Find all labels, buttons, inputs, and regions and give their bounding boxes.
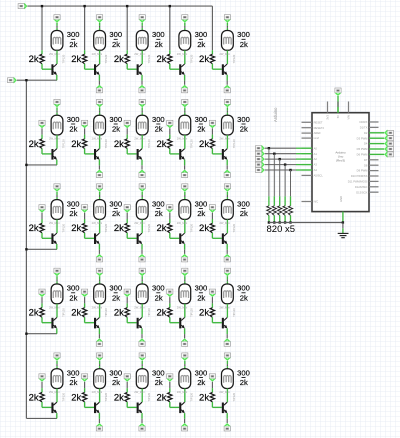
wire: base flag lead xyxy=(169,128,171,134)
resistor 820 #2 xyxy=(272,206,276,216)
junction A2 xyxy=(279,158,281,160)
lamp LA31 xyxy=(51,200,63,220)
svg-text:RESET: RESET xyxy=(314,120,323,124)
part labels 2W_Mini / TIP120 xyxy=(134,306,151,317)
part labels 2W_Mini / TIP120 xyxy=(134,52,151,63)
wire: base flag lead xyxy=(211,382,213,388)
lamp LA34 xyxy=(179,200,191,220)
svg-text:3V3: 3V3 xyxy=(326,115,330,120)
wire: base lead xyxy=(41,402,43,407)
net flag GND below Q33 xyxy=(139,254,146,262)
wire: A4 horizontal xyxy=(265,169,296,171)
net flag A0 (row-1 base select, top-left) xyxy=(18,3,27,10)
wire: base flag lead xyxy=(41,213,43,219)
transistor Q51 TIP120 xyxy=(51,402,57,413)
wire: base lead xyxy=(126,233,128,238)
svg-text:RESET2: RESET2 xyxy=(314,126,325,130)
wire: lamp bottom lead to collector xyxy=(226,389,228,403)
pin D3 PWM (right) xyxy=(369,137,379,139)
net flag A4 above base resistor R53 xyxy=(124,374,131,382)
wire: emitter lead to GND flag xyxy=(226,244,228,250)
pin D10 PWM/SS (right) xyxy=(369,175,379,177)
net flag A3 above base resistor R45 xyxy=(209,289,216,297)
wire: emitter lead to GND flag xyxy=(141,328,143,334)
label 300/2k of LA13 xyxy=(152,30,165,49)
wire: emitter lead to row wire xyxy=(56,244,58,249)
part labels 2W_Mini / TIP120 xyxy=(92,137,109,148)
part labels 2W_Mini / TIP120 xyxy=(134,137,151,148)
svg-text:D3 PWM: D3 PWM xyxy=(357,136,369,140)
wire: base lead xyxy=(84,317,86,322)
label 300/2k of LA25 xyxy=(237,115,250,134)
net flag D6 above lamp LA45 xyxy=(224,268,231,276)
net flag D3 (right) xyxy=(384,135,393,142)
net flag D2 above lamp LA11 xyxy=(54,15,61,23)
resistor R22 2k (base) xyxy=(82,139,86,149)
wire: D3 net stub xyxy=(379,137,385,139)
transistor Q41 TIP120 xyxy=(51,318,57,329)
net flag A1 above base resistor R24 xyxy=(167,120,174,128)
label 300/2k of LA35 xyxy=(237,199,250,218)
net flag GND below Q54 xyxy=(181,423,188,431)
net flag A3 above base resistor R43 xyxy=(124,289,131,297)
wire: D6 net stub xyxy=(379,153,385,155)
label 300/2k of LA12 xyxy=(109,30,122,49)
svg-text:D4: D4 xyxy=(364,142,368,146)
svg-text:2k: 2k xyxy=(199,223,209,234)
part labels 2W_Mini / TIP120 xyxy=(49,52,66,63)
wire: base flag lead xyxy=(41,297,43,303)
wire: base lead xyxy=(211,402,213,407)
svg-text:D12/MISO: D12/MISO xyxy=(355,185,368,189)
wire: lamp top lead xyxy=(141,23,143,26)
wire: lamp top lead xyxy=(56,192,58,195)
part labels 2W_Mini / TIP120 xyxy=(92,390,109,401)
net flag A4 above base resistor R51 xyxy=(39,374,46,382)
part labels 2W_Mini / TIP120 xyxy=(177,306,194,317)
wire: top bus drop to base resistor col 4 xyxy=(169,6,171,50)
pin A5/SCL (left) xyxy=(302,174,313,176)
junction on top bus col 1 xyxy=(41,5,43,7)
pin RESET (left) xyxy=(302,121,313,123)
wire: emitter lead to GND flag xyxy=(184,413,186,419)
pin GND (bottom) xyxy=(342,212,344,223)
svg-text:AREF: AREF xyxy=(314,131,322,135)
lamp LA25 xyxy=(222,115,234,135)
net flag A3 above base resistor R44 xyxy=(167,289,174,297)
net flag A0 (left of Arduino) xyxy=(255,145,264,152)
lamp LA53 xyxy=(136,369,148,389)
net flag A4 (left of Arduino) xyxy=(255,167,264,174)
wire: base lead xyxy=(41,149,43,154)
resistor R55 2k (base) xyxy=(210,392,214,402)
resistor 820 #5 xyxy=(288,206,292,216)
svg-text:D6 PWM: D6 PWM xyxy=(357,153,369,157)
net flag A4 above base resistor R54 xyxy=(167,374,174,382)
transistor Q11 TIP120 xyxy=(51,64,57,75)
net flag D5 above lamp LA34 xyxy=(182,184,189,192)
wire: lamp top lead xyxy=(141,107,143,110)
pin N/C (left) xyxy=(302,201,313,203)
junction A3 xyxy=(284,163,286,165)
resistor R31 2k (base) xyxy=(40,223,44,233)
label 300/2k of LA44 xyxy=(195,284,208,303)
svg-text:D8: D8 xyxy=(364,163,368,167)
pin D12/MISO (right) xyxy=(369,186,379,188)
svg-text:D5 PWM: D5 PWM xyxy=(357,147,369,151)
resistor R43 2k (base) xyxy=(125,308,129,318)
wire: base lead xyxy=(169,317,171,322)
wire: 820 #2 bottom lead xyxy=(273,215,275,222)
wire: base flag lead xyxy=(84,297,86,303)
part labels 2W_Mini / TIP120 xyxy=(177,52,194,63)
net flag A4 above base resistor R52 xyxy=(81,374,88,382)
net flag D3 above lamp LA32 xyxy=(96,184,103,192)
wire: lamp top lead xyxy=(226,361,228,364)
lamp LA22 xyxy=(94,115,106,135)
resistor R34 2k (base) xyxy=(168,223,172,233)
svg-text:Arduino: Arduino xyxy=(273,107,278,122)
wire: lamp bottom lead to collector xyxy=(141,219,143,233)
wire: base flag lead xyxy=(169,213,171,219)
transistor Q55 TIP120 xyxy=(222,402,228,413)
wire: ground rail xyxy=(269,222,343,224)
resistor 820 #3 xyxy=(278,206,282,216)
wire: base lead xyxy=(211,149,213,154)
transistor Q25 TIP120 xyxy=(222,149,228,160)
resistor R45 2k (base) xyxy=(210,308,214,318)
net flag GND below Q35 xyxy=(224,254,231,262)
wire: emitter lead to GND flag xyxy=(98,75,100,81)
wire: A3 drop to 820 resistor xyxy=(284,165,286,197)
wire: base flag lead xyxy=(211,213,213,219)
pin 5V (top) xyxy=(337,102,339,113)
wire: lamp bottom lead to collector xyxy=(99,389,101,403)
svg-text:2k: 2k xyxy=(114,392,124,403)
wire: base flag lead xyxy=(84,128,86,134)
net flag GND below Q45 xyxy=(224,338,231,346)
part labels 2W_Mini / TIP120 xyxy=(177,221,194,232)
part labels 2W_Mini / TIP120 xyxy=(219,390,236,401)
pin RESET2 (left) xyxy=(302,127,313,129)
net flag D5 above lamp LA54 xyxy=(182,353,189,361)
wire: emitter lead to GND flag xyxy=(226,413,228,419)
pin D6 PWM (right) xyxy=(369,153,379,155)
wire: A4 drop to 820 resistor xyxy=(290,170,292,196)
label 300/2k of LA22 xyxy=(109,115,122,134)
wire: A1 drop to 820 resistor xyxy=(273,154,275,197)
wire: base lead xyxy=(126,402,128,407)
net flag GND below Q42 xyxy=(96,338,103,346)
resistor R35 2k (base) xyxy=(210,223,214,233)
wire: lamp top lead xyxy=(99,361,101,364)
part labels 2W_Mini / TIP120 xyxy=(134,221,151,232)
wire: D4 net stub xyxy=(379,143,385,145)
wire: lamp top lead xyxy=(99,276,101,279)
net flag A2 above base resistor R34 xyxy=(167,205,174,213)
wire: emitter lead to GND flag xyxy=(184,160,186,166)
net flag D4 above lamp LA43 xyxy=(139,268,146,276)
wire: lamp top lead xyxy=(141,276,143,279)
svg-text:2k: 2k xyxy=(199,54,209,65)
svg-text:820 x5: 820 x5 xyxy=(267,224,296,235)
resistor R15 2k (base) xyxy=(210,54,214,64)
part labels 2W_Mini / TIP120 xyxy=(219,52,236,63)
lamp LA13 xyxy=(136,31,148,51)
wire: lamp bottom lead to collector xyxy=(184,304,186,318)
lamp LA21 xyxy=(51,115,63,135)
net flag GND below Q52 xyxy=(96,423,103,431)
wire: emitter lead to GND flag xyxy=(141,160,143,166)
net flag A2 above base resistor R33 xyxy=(124,205,131,213)
net flag GND below Q32 xyxy=(96,254,103,262)
net flag D6 above lamp LA25 xyxy=(224,99,231,107)
part labels 2W_Mini / TIP120 xyxy=(219,221,236,232)
wire: 5V lead xyxy=(337,96,339,102)
junction 820 #2 / ground rail xyxy=(273,221,275,223)
junction 820 #3 / ground rail xyxy=(279,221,281,223)
resistor R51 2k (base) xyxy=(40,392,44,402)
wire: lamp bottom lead to collector xyxy=(99,219,101,233)
wire: base flag lead xyxy=(126,382,128,388)
label 300/2k of LA21 xyxy=(67,115,80,134)
label 300/2k of LA52 xyxy=(109,368,122,387)
svg-text:D7: D7 xyxy=(364,158,368,162)
lamp LA11 xyxy=(51,31,63,51)
svg-text:D1/TX: D1/TX xyxy=(360,126,368,130)
lamp LA32 xyxy=(94,200,106,220)
resistor R12 2k (base) xyxy=(82,54,86,64)
wire: emitter lead to GND flag xyxy=(98,413,100,419)
wire: base lead xyxy=(41,233,43,238)
wire: base lead xyxy=(41,317,43,322)
net flag GND below Q15 xyxy=(224,85,231,93)
wire: lamp bottom lead to collector xyxy=(56,389,58,403)
wire: emitter lead to GND flag xyxy=(141,75,143,81)
net flag A2 (left of Arduino) xyxy=(255,156,264,163)
wire: A1 horizontal xyxy=(265,153,296,155)
wire: lamp bottom lead to collector xyxy=(226,219,228,233)
wire: base lead xyxy=(169,233,171,238)
wire: lamp top lead xyxy=(141,361,143,364)
part labels 2W_Mini / TIP120 xyxy=(49,221,66,232)
net flag A2 above base resistor R32 xyxy=(81,205,88,213)
label 300/2k of LA32 xyxy=(109,199,122,218)
wire: top bus drop to base resistor col 1 xyxy=(41,6,43,50)
pin A1 (left) xyxy=(302,153,313,155)
wire: lamp top lead xyxy=(184,192,186,195)
resistor R54 2k (base) xyxy=(168,392,172,402)
wire: 820 #1 bottom lead xyxy=(268,215,270,222)
resistor R21 2k (base) xyxy=(40,139,44,149)
lamp LA54 xyxy=(179,369,191,389)
transistor Q24 TIP120 xyxy=(179,149,185,160)
transistor Q15 TIP120 xyxy=(222,64,228,75)
net flag GND below Q53 xyxy=(139,423,146,431)
resistor R25 2k (base) xyxy=(210,139,214,149)
svg-text:2k: 2k xyxy=(199,392,209,403)
svg-text:D13/SCK: D13/SCK xyxy=(356,190,367,194)
transistor Q32 TIP120 xyxy=(94,233,100,244)
wire: base lead xyxy=(84,64,86,69)
resistor 820 #4 xyxy=(283,206,287,216)
part labels 2W_Mini / TIP120 xyxy=(219,306,236,317)
svg-text:A1: A1 xyxy=(314,152,318,156)
wire: base lead xyxy=(211,317,213,322)
wire: emitter lead to row wire xyxy=(56,328,58,333)
wire: emitter lead to row wire xyxy=(56,160,58,165)
label 300/2k of LA53 xyxy=(152,368,165,387)
wire: top bus drop to base resistor col 2 xyxy=(84,6,86,50)
svg-text:2k: 2k xyxy=(71,139,81,150)
junction ground rail / GND pin xyxy=(342,221,344,223)
label 300/2k of LA54 xyxy=(195,368,208,387)
svg-text:(Rev3): (Rev3) xyxy=(336,159,345,163)
svg-text:2k: 2k xyxy=(29,223,39,234)
net flag GND below Q23 xyxy=(139,170,146,178)
lamp LA45 xyxy=(222,284,234,304)
net flag D6 above lamp LA35 xyxy=(224,184,231,192)
wire: emitter lead to GND flag xyxy=(98,244,100,250)
net flag D4 above lamp LA13 xyxy=(139,15,146,23)
wire: lamp top lead xyxy=(56,276,58,279)
wire: lamp top lead xyxy=(226,192,228,195)
wire: base flag lead xyxy=(126,213,128,219)
net flag 5V above Arduino xyxy=(335,88,342,96)
svg-text:2k: 2k xyxy=(199,308,209,319)
wire: base lead xyxy=(126,317,128,322)
resistor R13 2k (base) xyxy=(125,54,129,64)
wire: base lead xyxy=(84,402,86,407)
wire: 820 #3 bottom lead xyxy=(279,215,281,222)
wire: row 5 emitter wire xyxy=(26,417,57,419)
svg-text:D2: D2 xyxy=(364,131,368,135)
wire: A0 drop to 820 resistor xyxy=(268,148,270,196)
wire: base lead xyxy=(211,64,213,69)
wire: A2 horizontal xyxy=(265,158,296,160)
pin A0 (left) xyxy=(302,147,313,149)
resistor R41 2k (base) xyxy=(40,308,44,318)
wire: top bus drop to base resistor col 3 xyxy=(126,6,128,50)
wire: base flag lead xyxy=(84,213,86,219)
label 300/2k of LA15 xyxy=(237,30,250,49)
wire: base lead xyxy=(169,149,171,154)
pin AREF (left) xyxy=(302,132,313,134)
net flag D3 above lamp LA42 xyxy=(96,268,103,276)
wire: row 3 emitter wire xyxy=(26,248,57,250)
svg-text:2k: 2k xyxy=(71,392,81,403)
transistor Q14 TIP120 xyxy=(179,64,185,75)
transistor Q54 TIP120 xyxy=(179,402,185,413)
part labels 2W_Mini / TIP120 xyxy=(219,137,236,148)
label 300/2k of LA45 xyxy=(237,284,250,303)
wire: lamp bottom lead to collector xyxy=(141,389,143,403)
wire: D2 net stub xyxy=(379,132,385,134)
transistor Q53 TIP120 xyxy=(137,402,143,413)
lamp LA42 xyxy=(94,284,106,304)
part labels 2W_Mini / TIP120 xyxy=(134,390,151,401)
wire: base lead xyxy=(126,149,128,154)
resistor R33 2k (base) xyxy=(125,223,129,233)
wire: lamp bottom lead to collector xyxy=(99,50,101,64)
wire: base flag lead xyxy=(169,382,171,388)
lamp LA43 xyxy=(136,284,148,304)
transistor Q13 TIP120 xyxy=(137,64,143,75)
wire: lamp bottom lead to collector xyxy=(141,135,143,149)
wire: base flag lead xyxy=(211,297,213,303)
label 300/2k of LA33 xyxy=(152,199,165,218)
wire: emitter lead to GND flag xyxy=(184,244,186,250)
svg-text:2k: 2k xyxy=(71,308,81,319)
net flag GND below Q24 xyxy=(181,170,188,178)
wire: lamp bottom lead to collector xyxy=(184,135,186,149)
wire: base flag lead xyxy=(41,128,43,134)
pin VIN (top) xyxy=(348,102,350,113)
wire: top bus drop to base resistor col 5 xyxy=(211,6,213,50)
part labels 2W_Mini / TIP120 xyxy=(92,221,109,232)
wire: lamp bottom lead to collector xyxy=(141,304,143,318)
wire: row 4 emitter wire xyxy=(26,333,57,335)
pin D7 (right) xyxy=(369,159,379,161)
svg-text:2k: 2k xyxy=(114,139,124,150)
lamp LA55 xyxy=(222,369,234,389)
net flag GND below Q34 xyxy=(181,254,188,262)
net flag GND below Q44 xyxy=(181,338,188,346)
wire: lamp bottom lead to collector xyxy=(141,50,143,64)
lamp LA52 xyxy=(94,369,106,389)
net flag GND below Q13 xyxy=(139,85,146,93)
wire: base flag lead xyxy=(84,382,86,388)
wire: base lead xyxy=(84,149,86,154)
pin A4 (left) xyxy=(302,169,313,171)
wire: lamp bottom lead to collector xyxy=(56,304,58,318)
pin D2 (right) xyxy=(369,132,379,134)
svg-text:A4: A4 xyxy=(314,168,318,172)
wire: lamp top lead xyxy=(56,107,58,110)
wire: A2 drop to 820 resistor xyxy=(279,159,281,196)
pin 3V3 (top) xyxy=(327,102,329,113)
svg-text:2k: 2k xyxy=(114,308,124,319)
net flag A1 (left of Arduino) xyxy=(255,150,264,157)
net flag D2 above lamp LA21 xyxy=(54,99,61,107)
wire: emitter lead to GND flag xyxy=(226,160,228,166)
transistor Q21 TIP120 xyxy=(51,149,57,160)
pin D9 PWM (right) xyxy=(369,170,379,172)
lamp LA41 xyxy=(51,284,63,304)
wire: lamp bottom lead to collector xyxy=(226,50,228,64)
wire: lamp top lead xyxy=(99,23,101,26)
wire: base lead xyxy=(41,64,43,69)
net flag A4 above base resistor R55 xyxy=(209,374,216,382)
wire: emitter lead to GND flag xyxy=(98,328,100,334)
svg-text:D10 PWM/SS: D10 PWM/SS xyxy=(351,174,368,178)
net flag D6 above lamp LA55 xyxy=(224,353,231,361)
transistor Q52 TIP120 xyxy=(94,402,100,413)
wire: lamp top lead xyxy=(184,23,186,26)
wire: lamp bottom lead to collector xyxy=(226,135,228,149)
part labels 2W_Mini / TIP120 xyxy=(177,390,194,401)
svg-text:N/C: N/C xyxy=(314,200,319,204)
resistor 820 #1 xyxy=(267,206,271,216)
wire: base flag lead xyxy=(211,128,213,134)
net flag GND below Q55 xyxy=(224,423,231,431)
net flag GND below Q43 xyxy=(139,338,146,346)
label 300/2k of LA31 xyxy=(67,199,80,218)
net flag A3 (left of Arduino) xyxy=(255,161,264,168)
net flag D2 above lamp LA51 xyxy=(54,353,61,361)
wire: 820 #4 bottom lead xyxy=(284,215,286,222)
junction on GND bus row 1 xyxy=(25,79,27,81)
